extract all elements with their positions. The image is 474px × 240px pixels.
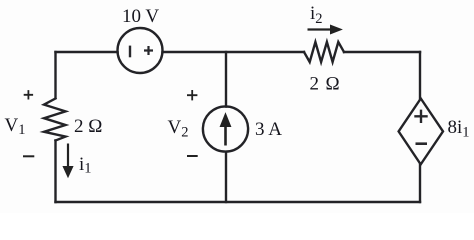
resistor R2 2ohm top-right zigzag — [304, 42, 344, 62]
label plus of V1 — [24, 90, 33, 99]
wire top-middle horizontal — [163, 51, 305, 53]
resistor R1 2ohm left vertical zigzag — [44, 99, 66, 141]
wire middle vertical upper — [225, 52, 227, 107]
voltage source minus terminal bar — [129, 46, 131, 58]
current source 3A circle — [203, 106, 248, 151]
wire middle vertical lower — [225, 152, 227, 202]
wire top-left horizontal — [56, 51, 118, 53]
svg-text:2 Ω: 2 Ω — [74, 116, 102, 137]
voltage source V1 circle (10 V) — [118, 28, 163, 73]
dependent source minus sign — [416, 142, 428, 145]
wire bottom horizontal — [56, 201, 421, 203]
wire top-right horizontal — [344, 51, 420, 53]
svg-text:2 Ω: 2 Ω — [310, 74, 341, 95]
dependent source diamond 8i1 — [399, 99, 443, 165]
current source arrow — [220, 114, 230, 146]
svg-text:3 A: 3 A — [255, 119, 282, 140]
label plus of V2 — [187, 90, 197, 100]
dependent source plus sign — [414, 110, 427, 123]
wire left vertical lower — [54, 141, 56, 203]
wire right vertical upper — [419, 52, 421, 99]
label minus of V1 — [23, 155, 34, 157]
wire left vertical upper — [54, 52, 56, 97]
voltage source plus sign — [144, 46, 153, 55]
label minus of V2 — [187, 155, 198, 157]
current arrow i1 — [63, 144, 73, 178]
svg-text:10 V: 10 V — [122, 6, 159, 27]
wire right vertical lower — [419, 164, 421, 202]
current arrow i2 — [308, 25, 342, 34]
